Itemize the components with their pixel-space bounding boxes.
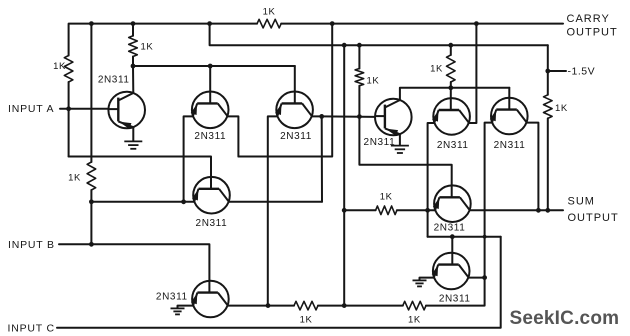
wire Q7 emitter column down to Q10 base row bbox=[428, 123, 435, 237]
svg-text:2N311: 2N311 bbox=[280, 131, 312, 142]
wire supply drop x=344 from -1.5V rail bbox=[343, 45, 345, 305]
wire R7 bottom to SUM line bbox=[547, 118, 549, 210]
transistor Q2 (2N311) bbox=[191, 92, 228, 129]
ground bbox=[124, 141, 142, 148]
node junction Q2 emitter column bbox=[181, 199, 186, 204]
transistor Q5 (2N311) bbox=[192, 281, 229, 318]
node junction Q3 emitter column / Q5 collector bbox=[266, 303, 271, 308]
wire Q3 emitter lead down to sum rail bbox=[268, 116, 278, 305]
svg-text:2N311: 2N311 bbox=[98, 75, 130, 86]
wire Q3 collector node to Q6 base bbox=[322, 115, 375, 118]
wire Q8 collector drop to SUM line bbox=[526, 123, 538, 211]
wire Q3 collector node down to Q4 collector bbox=[321, 116, 323, 201]
node junction Q7 emitter column / Q9 emitter wire bbox=[425, 208, 430, 213]
transistor Q1 area wires: collector lead bbox=[132, 66, 134, 93]
node junction R5 bottom / Q6 base wire bbox=[357, 114, 362, 119]
svg-text:INPUT B: INPUT B bbox=[8, 239, 55, 251]
wire supply top rail left section (-1.5V distribution) bbox=[68, 82, 70, 157]
wire Q6 base node down to Q9 base run bbox=[359, 117, 451, 186]
wire Q5 emitter to ground stub bbox=[178, 306, 194, 308]
wire Q10 base lead bbox=[451, 237, 453, 253]
resistor R8 1K bbox=[376, 206, 397, 215]
node junction INPUT B / R4 column bbox=[89, 242, 94, 247]
resistor R2 1K (Q1 collector load) bbox=[129, 36, 138, 57]
resistor R6 1K (carry stage base feed) bbox=[447, 55, 456, 82]
transistor Q8 (2N311) bbox=[490, 98, 527, 135]
svg-text:2N311: 2N311 bbox=[434, 223, 466, 234]
wire Q9 emitter lead to supply drop bbox=[344, 209, 375, 211]
node junction -1.5V supply stub bbox=[545, 69, 550, 74]
node junction carry rail / Q2 collector column bbox=[330, 21, 335, 26]
resistor R10 1K bbox=[403, 301, 426, 310]
wire vertical column x=91 lower part bbox=[90, 190, 92, 244]
wire -1.5V supply stub bbox=[548, 70, 566, 72]
wire SUM output line bbox=[470, 209, 564, 211]
wire Q2 collector cross-tie to carry column bbox=[238, 24, 332, 157]
node junction -1.5V rail / x=344 drop bbox=[342, 43, 347, 48]
wire Q10 base row bbox=[428, 236, 501, 238]
resistor R9 1K bbox=[294, 301, 318, 310]
node Q1 collector / Q2 Q3 base distribution bbox=[131, 64, 136, 69]
node junction R4 column / emitter row bbox=[89, 199, 94, 204]
wire Q2 emitter lead to column bbox=[184, 116, 194, 201]
wire Q7 base lead bbox=[450, 88, 452, 98]
node junction Q8 collector / SUM bbox=[536, 208, 541, 213]
wire Q3 base lead bbox=[294, 66, 296, 92]
resistor R1 1K (INPUT A pull-up) bbox=[64, 56, 73, 83]
svg-text:1K: 1K bbox=[141, 41, 154, 52]
svg-text:2N311: 2N311 bbox=[437, 140, 469, 151]
svg-text:CARRY: CARRY bbox=[567, 13, 610, 25]
node junction INPUT A / pull-up column bbox=[66, 106, 71, 111]
svg-text:1K: 1K bbox=[300, 315, 313, 326]
wire Q10 emitter to ground stub bbox=[420, 278, 435, 280]
node junction Q8 emitter column crossing bbox=[483, 235, 487, 239]
svg-text:1K: 1K bbox=[263, 6, 276, 17]
svg-text:1K: 1K bbox=[367, 76, 380, 87]
wire R6 upper lead bbox=[450, 45, 452, 55]
wire Q8 base lead bbox=[508, 88, 510, 98]
node junction Q10 collector / Q8 emitter column / bottom riser bbox=[482, 275, 487, 280]
transistor Q1 (2N311) bbox=[108, 92, 145, 129]
wire R5 lower lead to Q6 base node bbox=[358, 86, 360, 117]
transistor Q4 (2N311) bbox=[193, 177, 230, 214]
transistor Q3 (2N311) bbox=[276, 92, 313, 129]
node junction Q10 base bbox=[450, 234, 455, 239]
svg-text:2N311: 2N311 bbox=[156, 292, 188, 303]
wire R2 upper lead bbox=[132, 24, 134, 36]
wire Q3 collector lead bbox=[312, 115, 322, 117]
wire top rail upper-left corner run bbox=[69, 24, 258, 56]
wire Q8 emitter column down to Q10 collector bbox=[485, 123, 493, 278]
transistor Q10 (2N311) bbox=[432, 253, 469, 290]
wire INPUT A lead bbox=[60, 108, 109, 110]
svg-text:INPUT C: INPUT C bbox=[8, 322, 55, 334]
wire Q7 collector riser to carry line bbox=[469, 24, 477, 123]
svg-text:INPUT A: INPUT A bbox=[8, 103, 54, 115]
wire R8 to Q9 emitter bbox=[397, 209, 435, 211]
resistor R4 1K bbox=[87, 162, 96, 190]
wire Q5 collector run bbox=[228, 305, 295, 307]
node junction top rail / -1.5V feed bbox=[207, 21, 212, 26]
svg-text:SUM: SUM bbox=[568, 196, 595, 208]
resistor R3 1K (series carry rail) bbox=[257, 19, 281, 28]
ground bbox=[171, 308, 185, 314]
wire -1.5V rail drop and horizontal run bbox=[210, 24, 548, 46]
ground bbox=[391, 146, 409, 153]
svg-text:1K: 1K bbox=[408, 315, 421, 326]
svg-text:2N311: 2N311 bbox=[194, 131, 226, 142]
svg-text:-1.5V: -1.5V bbox=[568, 66, 596, 78]
wire R2 lower lead to node bbox=[132, 57, 134, 67]
wire Q4 emitter row from R4 node bbox=[91, 201, 194, 203]
transistor Q6 (2N311) bbox=[375, 99, 412, 136]
wire R6 lower lead bbox=[450, 82, 452, 88]
svg-text:1K: 1K bbox=[380, 192, 393, 203]
wire INPUT B lead to Q5 base bbox=[59, 244, 209, 280]
wire R5 upper lead bbox=[358, 45, 360, 68]
svg-text:1K: 1K bbox=[555, 103, 568, 114]
svg-text:1K: 1K bbox=[430, 64, 443, 75]
ground bbox=[413, 280, 427, 286]
svg-text:2N311: 2N311 bbox=[439, 293, 471, 304]
node junction R7 column / SUM bbox=[545, 208, 550, 213]
node junction R6 bottom / Q7 base bbox=[448, 85, 453, 90]
svg-text:2N311: 2N311 bbox=[196, 218, 228, 229]
transistor Q7 (2N311) bbox=[433, 98, 470, 135]
wire vertical column x=91 upper part bbox=[90, 24, 92, 162]
svg-text:2N311: 2N311 bbox=[364, 137, 396, 148]
wire Q4 collector to riser bbox=[229, 201, 322, 203]
resistor R7 1K (sum output load) bbox=[544, 95, 553, 119]
wire between R9 and R10 bbox=[318, 305, 403, 307]
wire INPUT A node down to Q4 base run bbox=[69, 157, 211, 177]
svg-text:1K: 1K bbox=[53, 61, 66, 72]
node junction top rail / column B bbox=[89, 21, 94, 26]
wire -1.5V rail right corner down bbox=[547, 45, 549, 95]
wire carry output line bbox=[281, 23, 563, 25]
wire Q1 collector to Q2/Q3 bases bbox=[133, 65, 295, 67]
node junction supply column / bottom row bbox=[342, 303, 347, 308]
resistor R5 1K (Q6 base / Q9 base feed) bbox=[355, 69, 364, 86]
wire INPUT C run to Q10 base riser bbox=[57, 237, 501, 328]
wire R10 to Q10 collector riser bbox=[426, 278, 485, 306]
node junction top rail / R2 column bbox=[131, 21, 136, 26]
node junction carry line / Q7 collector bbox=[474, 21, 479, 26]
wire Q1 emitter lead down bbox=[132, 127, 134, 141]
wire Q10 collector lead bbox=[469, 277, 484, 279]
wire Q6 collector riser to Q7/Q8 base wire bbox=[400, 88, 509, 100]
svg-text:OUTPUT: OUTPUT bbox=[568, 212, 619, 224]
transistor Q9 (2N311) bbox=[434, 185, 471, 222]
svg-text:OUTPUT: OUTPUT bbox=[567, 26, 618, 38]
node junction x=344 drop / Q9 emitter bbox=[342, 208, 347, 213]
wire Q2 collector lead to cross-tie bbox=[227, 116, 238, 156]
svg-text:SeekIC.com: SeekIC.com bbox=[510, 308, 620, 329]
node junction -1.5V rail / R6 bbox=[448, 43, 453, 48]
node junction Q3 collector bbox=[319, 114, 324, 119]
node junction Q2 base bbox=[208, 64, 213, 69]
wire Q6 emitter lead down bbox=[399, 134, 401, 145]
svg-text:2N311: 2N311 bbox=[494, 140, 526, 151]
node junction -1.5V rail / R5 bbox=[357, 43, 362, 48]
svg-text:1K: 1K bbox=[68, 172, 81, 183]
wire Q2 base lead bbox=[209, 66, 211, 92]
